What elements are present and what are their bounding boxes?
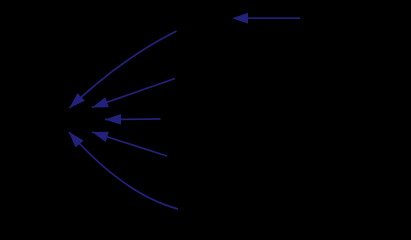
arrow 2 head <box>70 93 85 108</box>
arrow 4 wire (middle horizontal) <box>105 118 161 121</box>
arrow 5 head <box>92 132 109 142</box>
arrow 4 head <box>105 114 121 125</box>
arrow 6 wire (lower curve) <box>69 132 178 209</box>
arrow 5 wire (lower diagonal) <box>92 132 167 156</box>
arrow 3 head <box>92 97 109 107</box>
arrow 2 wire (upper curve) <box>70 31 177 108</box>
arrow 1 head <box>232 13 248 24</box>
arrow 3 wire (straight diagonal) <box>92 79 175 108</box>
arrow 6 head <box>69 132 84 148</box>
arrow 1 wire (top horizontal) <box>246 17 300 19</box>
